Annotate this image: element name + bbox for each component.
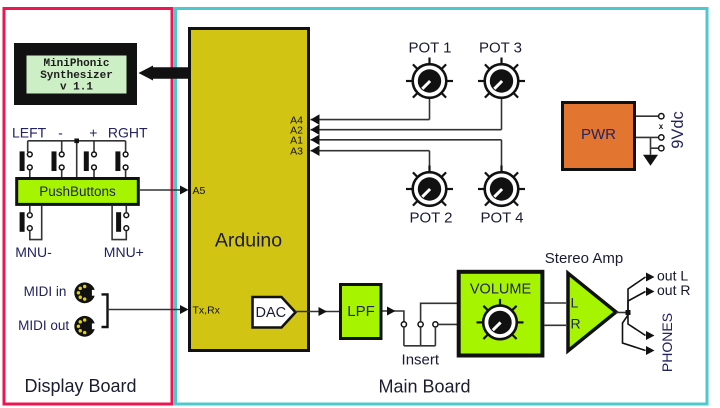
svg-text:A3: A3 (290, 145, 303, 157)
wire A1 to POT4 (311, 140, 502, 171)
main board border (cyan) (176, 9, 708, 405)
switch SW2 (-) (52, 151, 65, 171)
svg-text:Synthesizer: Synthesizer (40, 70, 113, 82)
stereo amp triangle (568, 273, 616, 351)
switch SW1 (LEFT) (20, 151, 33, 171)
potentiometer POT1 (406, 58, 453, 98)
wire insert3 to VOLUME (438, 323, 458, 325)
svg-text:PWR: PWR (581, 126, 616, 143)
wire PWR - (636, 136, 659, 138)
MIDI out connector J2 (74, 316, 96, 337)
potentiometer POT2 (406, 166, 453, 206)
common wire (28, 141, 126, 178)
svg-text:L: L (571, 295, 579, 311)
wire A3 to POT2 (311, 151, 430, 171)
wire PWR + (636, 115, 659, 117)
node insert 3 (433, 322, 438, 327)
fat arrow Arduino to LCD (139, 66, 189, 81)
arrowhead into Tx,Rx (180, 305, 189, 314)
arrowhead A1 (311, 135, 320, 146)
svg-text:POT 1: POT 1 (408, 40, 451, 57)
node terminal + (659, 114, 664, 119)
arrowhead into A5 (180, 186, 189, 195)
node output (626, 310, 631, 315)
potentiometer POT3 (478, 58, 525, 98)
svg-text:v 1.1: v 1.1 (60, 81, 93, 93)
wire LPF to insert (383, 311, 404, 322)
wire PushButtons to A5 (140, 189, 184, 191)
node insert 1 (401, 322, 406, 327)
svg-text:Tx,Rx: Tx,Rx (193, 304, 221, 316)
svg-text:PushButtons: PushButtons (39, 184, 116, 199)
junction dot (74, 139, 79, 144)
MIDI in connector J1 (74, 282, 96, 303)
svg-text:-: - (58, 125, 63, 141)
switch SW4 (RGHT) (115, 151, 128, 171)
svg-text:Main Board: Main Board (378, 377, 470, 397)
PushButtons box (17, 179, 139, 205)
volume knob (477, 299, 524, 339)
wire A4 to POT1 (311, 99, 430, 120)
bracket (102, 294, 108, 327)
svg-text:Arduino: Arduino (215, 230, 282, 252)
LCD module (14, 43, 137, 105)
svg-text:Stereo Amp: Stereo Amp (545, 250, 623, 267)
arrowhead out R (646, 287, 655, 296)
LPF box (341, 285, 382, 339)
svg-text:POT 2: POT 2 (409, 210, 452, 227)
node terminal - (659, 135, 664, 140)
wire DAC to LPF (296, 311, 340, 313)
svg-text:+: + (89, 125, 97, 141)
svg-text:DAC: DAC (256, 305, 287, 321)
arrowhead phones 1 (646, 331, 655, 340)
svg-text:POT 4: POT 4 (480, 210, 523, 227)
arrowhead DAC-LPF (319, 307, 328, 316)
wire amp tip to node (616, 312, 626, 314)
svg-text:VOLUME: VOLUME (470, 282, 532, 298)
switch SW6 (MNU+) (116, 212, 129, 232)
svg-text:Display Board: Display Board (24, 376, 136, 396)
svg-text:R: R (571, 316, 581, 332)
switch SW5 (MNU-) (20, 212, 33, 232)
wire to ground (650, 137, 652, 154)
svg-text:LPF: LPF (347, 303, 375, 320)
svg-text:MIDI out: MIDI out (18, 318, 69, 333)
arrowhead LPF out (387, 307, 396, 316)
wire phones 1 (628, 315, 646, 336)
Arduino box U1 (190, 29, 309, 351)
node insert 2 (418, 322, 423, 327)
wire phones 2 (623, 315, 646, 351)
svg-text:MNU-: MNU- (15, 244, 52, 260)
VOLUME box (459, 272, 543, 356)
arrowhead phones 2 (646, 346, 655, 355)
svg-text:RGHT: RGHT (108, 125, 148, 141)
switch SW3 (+) (84, 151, 97, 171)
wire (93, 170, 95, 178)
svg-text:PHONES: PHONES (659, 313, 675, 372)
arrowhead out L (646, 273, 655, 282)
wire (125, 170, 127, 178)
arrowhead A3 (311, 145, 320, 156)
wire VOLUME to amp L (545, 302, 567, 304)
LCD text (40, 58, 113, 94)
svg-text:out R: out R (657, 282, 690, 298)
wire VOLUME to amp R (545, 324, 567, 326)
potentiometer POT4 (478, 166, 525, 206)
svg-text:MIDI in: MIDI in (24, 284, 67, 299)
wire out R (628, 292, 646, 311)
svg-text:MiniPhonic: MiniPhonic (43, 58, 109, 70)
svg-text:POT 3: POT 3 (479, 40, 522, 57)
wire insert2 to VOLUME (421, 303, 458, 322)
DAC pentagon (253, 297, 296, 328)
wires MNU+ (112, 206, 126, 240)
svg-text:Insert: Insert (402, 352, 440, 369)
wire A2 to POT3 (311, 99, 502, 130)
wire MIDI to Arduino (108, 309, 185, 311)
svg-text:9Vdc: 9Vdc (669, 111, 687, 149)
LCD screen (27, 56, 127, 94)
node terminal 3 (659, 146, 664, 151)
wire (61, 170, 63, 178)
svg-text:x: x (659, 122, 664, 131)
ground (643, 155, 658, 166)
svg-text:A5: A5 (193, 185, 206, 197)
wires MNU- (30, 206, 42, 240)
jumper U wires (404, 327, 436, 346)
wire (29, 170, 31, 178)
wire out L (628, 277, 646, 310)
arrowhead A2 (311, 124, 320, 135)
wire terminal 3 (651, 147, 659, 149)
display board border (red) (4, 9, 172, 405)
svg-text:LEFT: LEFT (12, 125, 47, 141)
arrowhead A4 (311, 114, 320, 125)
PWR box (563, 103, 635, 170)
svg-text:MNU+: MNU+ (104, 244, 144, 260)
